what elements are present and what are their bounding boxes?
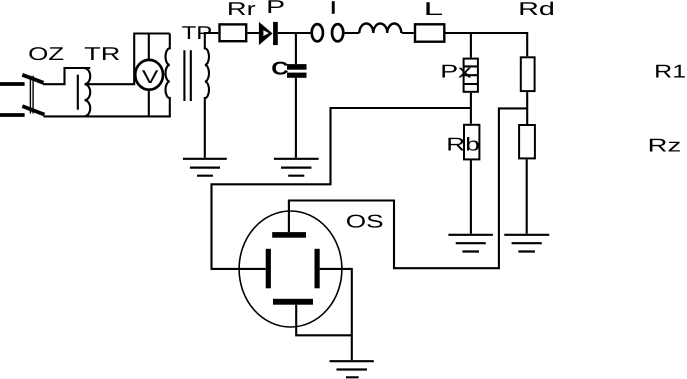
svg-text:V: V — [142, 66, 159, 87]
svg-text:Rb: Rb — [446, 133, 480, 154]
svg-text:Rz: Rz — [648, 134, 682, 155]
svg-text:Rr: Rr — [227, 0, 256, 19]
svg-text:OZ: OZ — [28, 43, 64, 64]
svg-text:Rd: Rd — [518, 0, 555, 19]
svg-text:C: C — [271, 58, 289, 79]
svg-text:TR: TR — [84, 43, 120, 64]
svg-text:Px: Px — [440, 61, 472, 82]
svg-text:R1: R1 — [654, 60, 686, 81]
svg-text:P: P — [266, 0, 285, 17]
svg-text:TP: TP — [182, 22, 213, 43]
svg-text:L: L — [424, 0, 444, 19]
svg-text:OS: OS — [346, 210, 384, 231]
